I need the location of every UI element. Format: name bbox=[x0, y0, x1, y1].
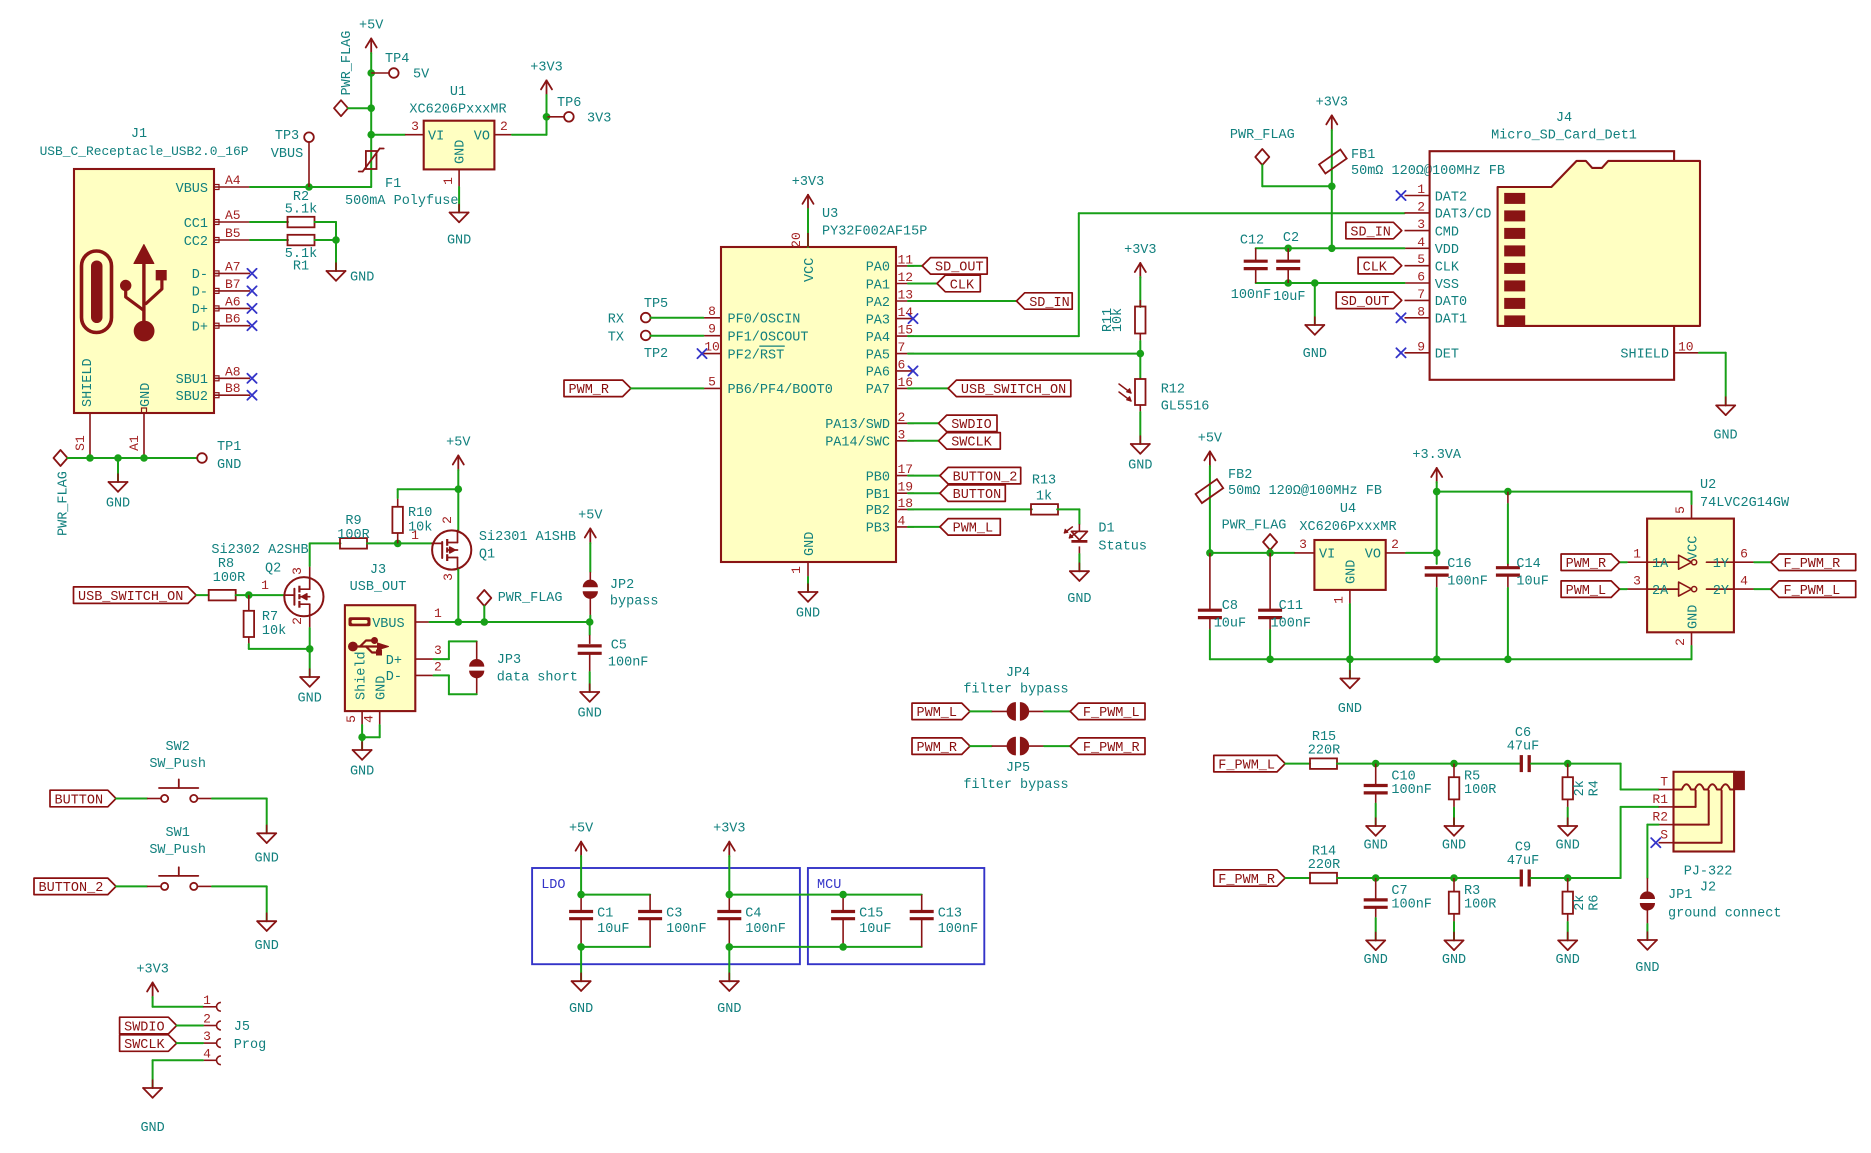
svg-text:USB_SWITCH_ON: USB_SWITCH_ON bbox=[78, 590, 183, 605]
svg-text:BUTTON: BUTTON bbox=[55, 793, 104, 808]
svg-text:F_PWM_R: F_PWM_R bbox=[1083, 741, 1140, 756]
svg-text:U4: U4 bbox=[1340, 502, 1356, 517]
svg-text:FB1: FB1 bbox=[1351, 148, 1375, 163]
svg-text:VO: VO bbox=[474, 130, 490, 145]
svg-text:B7: B7 bbox=[225, 277, 241, 292]
svg-text:3: 3 bbox=[898, 427, 906, 442]
svg-text:PWM_L: PWM_L bbox=[917, 706, 958, 721]
svg-text:C16: C16 bbox=[1447, 557, 1471, 572]
svg-text:PA14/SWC: PA14/SWC bbox=[825, 436, 890, 451]
svg-text:D-: D- bbox=[192, 286, 208, 301]
svg-text:5: 5 bbox=[708, 374, 716, 389]
svg-text:1: 1 bbox=[434, 606, 442, 621]
svg-text:SD_OUT: SD_OUT bbox=[1341, 295, 1390, 310]
svg-text:U2: U2 bbox=[1700, 478, 1716, 493]
svg-text:2: 2 bbox=[290, 617, 305, 625]
svg-text:100R: 100R bbox=[1464, 898, 1496, 913]
svg-text:R13: R13 bbox=[1032, 474, 1056, 489]
svg-text:PA3: PA3 bbox=[866, 313, 890, 328]
svg-text:U3: U3 bbox=[822, 207, 838, 222]
svg-text:ground connect: ground connect bbox=[1668, 907, 1781, 922]
svg-text:R1: R1 bbox=[1652, 792, 1668, 807]
svg-text:GND: GND bbox=[350, 765, 374, 780]
svg-text:D1: D1 bbox=[1098, 522, 1114, 537]
svg-text:TP1: TP1 bbox=[217, 440, 241, 455]
svg-text:TP4: TP4 bbox=[385, 52, 409, 67]
svg-text:GND: GND bbox=[717, 1002, 741, 1017]
svg-text:XC6206PxxxMR: XC6206PxxxMR bbox=[1299, 520, 1396, 535]
svg-text:GND: GND bbox=[298, 692, 322, 707]
svg-text:GND: GND bbox=[139, 383, 154, 407]
svg-text:USB_SWITCH_ON: USB_SWITCH_ON bbox=[961, 383, 1066, 398]
svg-text:GND: GND bbox=[1303, 347, 1327, 362]
svg-text:100nF: 100nF bbox=[745, 922, 786, 937]
svg-text:100nF: 100nF bbox=[938, 922, 979, 937]
svg-text:B5: B5 bbox=[225, 226, 241, 241]
svg-text:14: 14 bbox=[898, 305, 914, 320]
svg-text:20: 20 bbox=[789, 232, 804, 248]
svg-text:2Y: 2Y bbox=[1713, 584, 1729, 599]
svg-text:9: 9 bbox=[708, 322, 716, 337]
svg-text:PA7: PA7 bbox=[866, 383, 890, 398]
svg-text:VBUS: VBUS bbox=[271, 147, 303, 162]
svg-text:10uF: 10uF bbox=[1214, 617, 1246, 632]
svg-text:USB_C_Receptacle_USB2.0_16P: USB_C_Receptacle_USB2.0_16P bbox=[40, 144, 249, 159]
svg-text:DAT0: DAT0 bbox=[1435, 295, 1467, 310]
svg-text:100R: 100R bbox=[1464, 783, 1496, 798]
svg-text:RST: RST bbox=[760, 348, 784, 363]
svg-text:3: 3 bbox=[411, 119, 419, 134]
svg-text:D+: D+ bbox=[192, 303, 208, 318]
svg-text:1: 1 bbox=[1633, 547, 1641, 562]
svg-text:100nF: 100nF bbox=[608, 656, 649, 671]
svg-text:CLK: CLK bbox=[1363, 261, 1388, 276]
svg-text:CC1: CC1 bbox=[184, 217, 208, 232]
svg-text:+5V: +5V bbox=[446, 436, 471, 451]
svg-text:J3: J3 bbox=[370, 563, 386, 578]
svg-text:100R: 100R bbox=[213, 571, 245, 586]
svg-text:220R: 220R bbox=[1308, 858, 1340, 873]
svg-text:GND: GND bbox=[796, 607, 820, 622]
svg-text:S1: S1 bbox=[73, 435, 88, 451]
svg-text:GND: GND bbox=[578, 707, 602, 722]
svg-text:PF2/: PF2/ bbox=[728, 348, 760, 363]
svg-text:1: 1 bbox=[1332, 596, 1347, 604]
svg-text:C14: C14 bbox=[1516, 557, 1540, 572]
svg-text:+3V3: +3V3 bbox=[792, 175, 824, 190]
svg-text:5V: 5V bbox=[413, 68, 430, 83]
svg-text:4: 4 bbox=[203, 1046, 211, 1061]
svg-text:U1: U1 bbox=[450, 85, 466, 100]
svg-text:100nF: 100nF bbox=[1271, 617, 1312, 632]
svg-text:2: 2 bbox=[1673, 638, 1688, 646]
svg-text:DET: DET bbox=[1435, 348, 1459, 363]
svg-text:F_PWM_L: F_PWM_L bbox=[1083, 706, 1140, 721]
svg-text:Prog: Prog bbox=[234, 1038, 266, 1053]
svg-text:2: 2 bbox=[434, 660, 442, 675]
svg-text:GND: GND bbox=[1338, 702, 1362, 717]
svg-text:VO: VO bbox=[1365, 548, 1381, 563]
svg-text:CLK: CLK bbox=[950, 278, 975, 293]
svg-text:XC6206PxxxMR: XC6206PxxxMR bbox=[409, 103, 506, 118]
svg-text:9: 9 bbox=[1417, 339, 1425, 354]
svg-text:PF0/OSCIN: PF0/OSCIN bbox=[728, 313, 801, 328]
svg-text:3: 3 bbox=[441, 573, 456, 581]
svg-text:C15: C15 bbox=[859, 907, 883, 922]
svg-text:PB0: PB0 bbox=[866, 470, 890, 485]
svg-text:GND: GND bbox=[255, 851, 279, 866]
svg-text:BUTTON_2: BUTTON_2 bbox=[953, 470, 1018, 485]
svg-text:GND: GND bbox=[217, 458, 241, 473]
svg-text:T: T bbox=[1660, 775, 1668, 790]
svg-text:J4: J4 bbox=[1556, 111, 1572, 126]
svg-text:GND: GND bbox=[803, 532, 818, 556]
svg-text:bypass: bypass bbox=[610, 595, 659, 610]
svg-text:Micro_SD_Card_Det1: Micro_SD_Card_Det1 bbox=[1491, 129, 1637, 144]
svg-text:PWR_FLAG: PWR_FLAG bbox=[57, 471, 72, 536]
svg-text:CLK: CLK bbox=[1435, 261, 1460, 276]
svg-text:10k: 10k bbox=[1111, 308, 1126, 332]
svg-text:CC2: CC2 bbox=[184, 235, 208, 250]
svg-text:GND: GND bbox=[1556, 953, 1580, 968]
svg-text:R12: R12 bbox=[1161, 383, 1185, 398]
svg-text:VSS: VSS bbox=[1435, 278, 1459, 293]
svg-text:R9: R9 bbox=[345, 514, 361, 529]
svg-text:50mΩ 120Ω@100MHz FB: 50mΩ 120Ω@100MHz FB bbox=[1351, 164, 1505, 179]
svg-text:SWCLK: SWCLK bbox=[124, 1038, 165, 1053]
svg-text:PWM_L: PWM_L bbox=[1566, 584, 1607, 599]
svg-text:100nF: 100nF bbox=[1391, 898, 1432, 913]
svg-text:+3V3: +3V3 bbox=[136, 963, 168, 978]
svg-text:PWR_FLAG: PWR_FLAG bbox=[498, 591, 563, 606]
svg-text:1: 1 bbox=[789, 566, 804, 574]
svg-text:PA1: PA1 bbox=[866, 278, 890, 293]
svg-text:VBUS: VBUS bbox=[372, 617, 404, 632]
svg-text:DAT3/CD: DAT3/CD bbox=[1435, 208, 1492, 223]
svg-text:5.1k: 5.1k bbox=[285, 203, 317, 218]
svg-text:GND: GND bbox=[1345, 560, 1360, 584]
svg-text:+5V: +5V bbox=[569, 822, 594, 837]
svg-text:2: 2 bbox=[1417, 199, 1425, 214]
svg-text:100R: 100R bbox=[337, 528, 369, 543]
svg-text:B8: B8 bbox=[225, 381, 241, 396]
svg-text:8: 8 bbox=[708, 304, 716, 319]
svg-text:SW_Push: SW_Push bbox=[149, 843, 206, 858]
svg-text:SHIELD: SHIELD bbox=[81, 358, 96, 407]
svg-text:100nF: 100nF bbox=[1447, 575, 1488, 590]
svg-text:C1: C1 bbox=[597, 907, 613, 922]
svg-text:data short: data short bbox=[497, 671, 578, 686]
svg-text:74LVC2G14GW: 74LVC2G14GW bbox=[1700, 496, 1790, 511]
svg-text:R1: R1 bbox=[293, 260, 309, 275]
svg-text:5: 5 bbox=[344, 715, 359, 723]
svg-text:100nF: 100nF bbox=[1391, 783, 1432, 798]
svg-text:GND: GND bbox=[1635, 961, 1659, 976]
svg-text:1A: 1A bbox=[1652, 557, 1669, 572]
svg-text:1: 1 bbox=[411, 528, 419, 543]
svg-text:1: 1 bbox=[1417, 182, 1425, 197]
svg-text:2A: 2A bbox=[1652, 584, 1669, 599]
svg-text:PB2: PB2 bbox=[866, 504, 890, 519]
svg-text:10: 10 bbox=[704, 340, 720, 355]
svg-text:J1: J1 bbox=[131, 127, 147, 142]
svg-text:GND: GND bbox=[106, 497, 130, 512]
svg-text:JP2: JP2 bbox=[610, 578, 634, 593]
svg-text:D-: D- bbox=[192, 268, 208, 283]
svg-text:GND: GND bbox=[447, 234, 471, 249]
svg-text:JP5: JP5 bbox=[1006, 761, 1030, 776]
svg-text:2: 2 bbox=[440, 516, 455, 524]
svg-text:GND: GND bbox=[374, 676, 389, 700]
svg-text:2k: 2k bbox=[1573, 895, 1588, 911]
svg-text:C8: C8 bbox=[1222, 599, 1238, 614]
svg-text:+3V3: +3V3 bbox=[1124, 243, 1156, 258]
svg-text:A1: A1 bbox=[127, 435, 142, 451]
svg-text:6: 6 bbox=[1417, 270, 1425, 285]
svg-text:BUTTON_2: BUTTON_2 bbox=[39, 881, 104, 896]
svg-text:GND: GND bbox=[350, 271, 374, 286]
svg-text:VBUS: VBUS bbox=[176, 182, 208, 197]
svg-text:SBU2: SBU2 bbox=[176, 390, 208, 405]
svg-text:+3V3: +3V3 bbox=[1316, 95, 1348, 110]
svg-text:TP3: TP3 bbox=[275, 129, 299, 144]
svg-text:JP1: JP1 bbox=[1668, 888, 1692, 903]
svg-text:DAT1: DAT1 bbox=[1435, 313, 1467, 328]
svg-text:TP6: TP6 bbox=[557, 96, 581, 111]
svg-text:PJ-322: PJ-322 bbox=[1684, 865, 1733, 880]
svg-text:GND: GND bbox=[1364, 839, 1388, 854]
svg-text:PWM_R: PWM_R bbox=[569, 383, 610, 398]
svg-text:7: 7 bbox=[1417, 287, 1425, 302]
svg-text:6: 6 bbox=[1740, 547, 1748, 562]
svg-text:Si2301 A1SHB: Si2301 A1SHB bbox=[479, 530, 576, 545]
svg-text:PWR_FLAG: PWR_FLAG bbox=[1222, 519, 1287, 534]
svg-text:10k: 10k bbox=[262, 624, 286, 639]
svg-text:C4: C4 bbox=[745, 907, 761, 922]
svg-text:JP3: JP3 bbox=[497, 653, 521, 668]
svg-text:47uF: 47uF bbox=[1507, 854, 1539, 869]
svg-text:R10: R10 bbox=[408, 506, 432, 521]
svg-text:100nF: 100nF bbox=[666, 922, 707, 937]
svg-text:+5V: +5V bbox=[578, 509, 603, 524]
svg-text:SW_Push: SW_Push bbox=[149, 757, 206, 772]
svg-text:PWR_FLAG: PWR_FLAG bbox=[1230, 128, 1295, 143]
svg-text:R7: R7 bbox=[262, 610, 278, 625]
svg-text:C3: C3 bbox=[666, 907, 682, 922]
svg-text:FB2: FB2 bbox=[1228, 468, 1252, 483]
svg-text:VI: VI bbox=[1319, 548, 1335, 563]
svg-text:CMD: CMD bbox=[1435, 225, 1459, 240]
svg-text:3: 3 bbox=[1417, 217, 1425, 232]
svg-text:GND: GND bbox=[454, 140, 469, 164]
svg-text:+3.3VA: +3.3VA bbox=[1412, 448, 1462, 463]
svg-text:PF1/OSCOUT: PF1/OSCOUT bbox=[728, 331, 809, 346]
svg-text:PWR_FLAG: PWR_FLAG bbox=[340, 31, 355, 96]
svg-text:MCU: MCU bbox=[817, 878, 841, 893]
svg-text:3V3: 3V3 bbox=[587, 112, 611, 127]
svg-text:SD_IN: SD_IN bbox=[1350, 225, 1391, 240]
svg-text:DAT2: DAT2 bbox=[1435, 190, 1467, 205]
svg-text:R2: R2 bbox=[1652, 810, 1668, 825]
svg-text:Shield: Shield bbox=[355, 651, 370, 700]
svg-text:10: 10 bbox=[1678, 339, 1694, 354]
svg-text:Q1: Q1 bbox=[479, 548, 495, 563]
svg-text:+5V: +5V bbox=[359, 19, 384, 34]
svg-text:2: 2 bbox=[898, 410, 906, 425]
svg-text:PB1: PB1 bbox=[866, 488, 890, 503]
svg-text:+5V: +5V bbox=[1198, 431, 1223, 446]
svg-text:S: S bbox=[1660, 828, 1668, 843]
svg-text:GND: GND bbox=[1128, 459, 1152, 474]
svg-text:C13: C13 bbox=[938, 907, 962, 922]
svg-text:J5: J5 bbox=[234, 1020, 250, 1035]
svg-text:10uF: 10uF bbox=[597, 922, 629, 937]
svg-text:1: 1 bbox=[441, 177, 456, 185]
svg-text:A8: A8 bbox=[225, 364, 241, 379]
svg-text:F1: F1 bbox=[385, 177, 401, 192]
svg-text:SW2: SW2 bbox=[166, 740, 190, 755]
svg-text:PWM_R: PWM_R bbox=[917, 741, 958, 756]
svg-text:10uF: 10uF bbox=[859, 922, 891, 937]
svg-text:1k: 1k bbox=[1036, 489, 1052, 504]
svg-text:2k: 2k bbox=[1573, 780, 1588, 796]
svg-text:F_PWM_L: F_PWM_L bbox=[1784, 584, 1841, 599]
svg-text:PA13/SWD: PA13/SWD bbox=[825, 418, 890, 433]
svg-text:PB6/PF4/BOOT0: PB6/PF4/BOOT0 bbox=[728, 383, 833, 398]
svg-text:A7: A7 bbox=[225, 259, 241, 274]
svg-text:100nF: 100nF bbox=[1231, 288, 1272, 303]
svg-text:SD_OUT: SD_OUT bbox=[935, 261, 984, 276]
svg-text:6: 6 bbox=[898, 357, 906, 372]
svg-text:C12: C12 bbox=[1240, 234, 1264, 249]
svg-text:4: 4 bbox=[1740, 573, 1748, 588]
svg-text:10uF: 10uF bbox=[1273, 290, 1305, 305]
svg-text:VI: VI bbox=[428, 130, 444, 145]
svg-text:220R: 220R bbox=[1308, 744, 1340, 759]
svg-text:SWDIO: SWDIO bbox=[951, 418, 992, 433]
svg-text:F_PWM_R: F_PWM_R bbox=[1218, 873, 1275, 888]
svg-text:R4: R4 bbox=[1588, 780, 1603, 796]
svg-text:+3V3: +3V3 bbox=[530, 60, 562, 75]
svg-text:PWM_L: PWM_L bbox=[953, 522, 994, 537]
svg-text:SW1: SW1 bbox=[166, 826, 190, 841]
svg-text:F_PWM_R: F_PWM_R bbox=[1784, 557, 1841, 572]
svg-text:3: 3 bbox=[1633, 573, 1641, 588]
svg-text:PA0: PA0 bbox=[866, 261, 890, 276]
svg-text:3: 3 bbox=[290, 567, 305, 575]
svg-text:PA2: PA2 bbox=[866, 296, 890, 311]
svg-text:GND: GND bbox=[255, 939, 279, 954]
svg-text:C5: C5 bbox=[611, 639, 627, 654]
svg-text:filter bypass: filter bypass bbox=[963, 778, 1068, 793]
svg-text:filter bypass: filter bypass bbox=[963, 683, 1068, 698]
svg-text:PY32F002AF15P: PY32F002AF15P bbox=[822, 225, 927, 240]
svg-text:C2: C2 bbox=[1283, 231, 1299, 246]
svg-text:A4: A4 bbox=[225, 173, 241, 188]
svg-text:PWM_R: PWM_R bbox=[1566, 557, 1607, 572]
svg-text:R8: R8 bbox=[218, 557, 234, 572]
svg-text:GND: GND bbox=[140, 1121, 164, 1136]
svg-text:3: 3 bbox=[203, 1029, 211, 1044]
svg-text:Status: Status bbox=[1098, 540, 1147, 555]
svg-text:1: 1 bbox=[203, 993, 211, 1008]
svg-text:GND: GND bbox=[1556, 839, 1580, 854]
svg-text:RX: RX bbox=[608, 313, 624, 328]
svg-text:Si2302 A2SHB: Si2302 A2SHB bbox=[211, 543, 308, 558]
svg-text:BUTTON: BUTTON bbox=[953, 488, 1002, 503]
svg-text:2: 2 bbox=[500, 119, 508, 134]
svg-text:TX: TX bbox=[608, 330, 624, 345]
svg-text:10uF: 10uF bbox=[1516, 575, 1548, 590]
svg-text:+3V3: +3V3 bbox=[713, 822, 745, 837]
svg-text:LDO: LDO bbox=[541, 878, 565, 893]
svg-text:A5: A5 bbox=[225, 208, 241, 223]
svg-text:SD_IN: SD_IN bbox=[1029, 296, 1070, 311]
svg-text:GND: GND bbox=[1713, 429, 1737, 444]
svg-text:PA5: PA5 bbox=[866, 348, 890, 363]
svg-text:4: 4 bbox=[1417, 235, 1425, 250]
svg-text:SWDIO: SWDIO bbox=[124, 1020, 165, 1035]
svg-text:PA6: PA6 bbox=[866, 366, 890, 381]
svg-text:SHIELD: SHIELD bbox=[1620, 348, 1669, 363]
svg-text:PA4: PA4 bbox=[866, 331, 890, 346]
svg-text:GND: GND bbox=[569, 1002, 593, 1017]
svg-text:SWCLK: SWCLK bbox=[951, 436, 992, 451]
svg-text:GND: GND bbox=[1442, 953, 1466, 968]
svg-text:F_PWM_L: F_PWM_L bbox=[1218, 758, 1275, 773]
svg-text:Q2: Q2 bbox=[265, 562, 281, 577]
svg-text:TP2: TP2 bbox=[644, 347, 668, 362]
svg-text:C11: C11 bbox=[1279, 599, 1303, 614]
svg-text:GND: GND bbox=[1686, 605, 1701, 629]
svg-text:VCC: VCC bbox=[1686, 536, 1701, 560]
svg-text:3: 3 bbox=[1299, 537, 1307, 552]
svg-text:2: 2 bbox=[1391, 537, 1399, 552]
svg-text:JP4: JP4 bbox=[1006, 666, 1030, 681]
svg-text:4: 4 bbox=[898, 513, 906, 528]
svg-text:500mA Polyfuse: 500mA Polyfuse bbox=[345, 194, 458, 209]
svg-text:2: 2 bbox=[203, 1012, 211, 1027]
svg-text:J2: J2 bbox=[1700, 881, 1716, 896]
svg-text:USB_OUT: USB_OUT bbox=[350, 580, 407, 595]
svg-text:VCC: VCC bbox=[803, 258, 818, 282]
svg-text:1: 1 bbox=[261, 578, 269, 593]
svg-text:GND: GND bbox=[1067, 592, 1091, 607]
svg-text:5: 5 bbox=[1417, 252, 1425, 267]
svg-text:D+: D+ bbox=[192, 321, 208, 336]
svg-text:1Y: 1Y bbox=[1713, 557, 1729, 572]
svg-text:D+: D+ bbox=[386, 654, 402, 669]
svg-text:50mΩ 120Ω@100MHz FB: 50mΩ 120Ω@100MHz FB bbox=[1228, 484, 1382, 499]
svg-text:4: 4 bbox=[362, 715, 377, 723]
svg-text:A6: A6 bbox=[225, 294, 241, 309]
svg-text:5: 5 bbox=[1673, 506, 1688, 514]
svg-text:GL5516: GL5516 bbox=[1161, 400, 1210, 415]
svg-text:7: 7 bbox=[898, 340, 906, 355]
svg-text:SBU1: SBU1 bbox=[176, 373, 208, 388]
svg-text:PB3: PB3 bbox=[866, 522, 890, 537]
svg-text:8: 8 bbox=[1417, 304, 1425, 319]
svg-text:TP5: TP5 bbox=[644, 297, 668, 312]
svg-text:B6: B6 bbox=[225, 312, 241, 327]
svg-text:R6: R6 bbox=[1588, 895, 1603, 911]
svg-text:47uF: 47uF bbox=[1507, 740, 1539, 755]
svg-text:GND: GND bbox=[1442, 839, 1466, 854]
svg-text:3: 3 bbox=[434, 643, 442, 658]
svg-text:GND: GND bbox=[1364, 953, 1388, 968]
svg-text:VDD: VDD bbox=[1435, 243, 1459, 258]
